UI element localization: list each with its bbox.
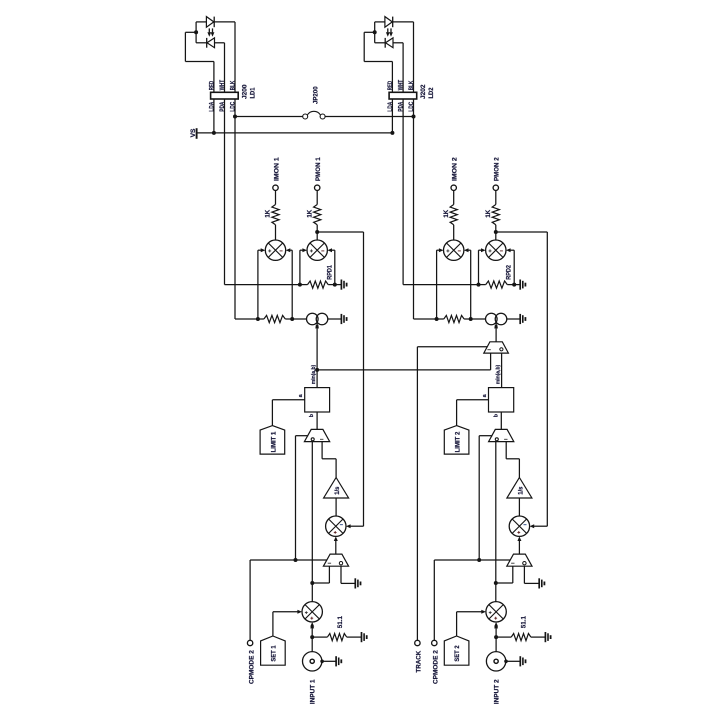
- ground rpd ch1: [340, 280, 342, 290]
- wire anode stub ch2: [364, 31, 375, 33]
- connector J200 LD1: [211, 92, 239, 99]
- wire b to limiter ch1: [316, 412, 318, 429]
- node sense left ch2: [435, 317, 439, 321]
- svg-text:BLK: BLK: [229, 80, 236, 90]
- wire laser anode top ch2: [375, 21, 385, 23]
- wire riser right: [513, 250, 515, 284]
- wire RED jog ch2: [363, 32, 365, 61]
- node LDA-VS ch1: [212, 131, 216, 135]
- node rpd left ch1: [298, 283, 302, 287]
- laser diode D2: [385, 17, 392, 28]
- wire rpd line ch2: [479, 284, 486, 286]
- integrator 1/s ch2: [507, 478, 532, 499]
- wire PDA vertical ch2: [402, 43, 404, 93]
- resistor 1K IMON 1: [272, 205, 279, 225]
- node sense right ch1: [290, 317, 294, 321]
- trapezoid feedback ch1: [323, 554, 348, 566]
- photodiode PD1: [207, 38, 215, 48]
- wire LDC vertical ch1: [234, 22, 236, 92]
- svg-text:RED: RED: [208, 81, 215, 91]
- wire photodiode line ch1: [196, 42, 207, 44]
- node rpd left ch2: [477, 283, 481, 287]
- node sense right ch2: [469, 317, 473, 321]
- svg-text:b: b: [309, 414, 315, 417]
- trapezoid track mux ch2: [484, 342, 509, 353]
- current mirror output arrow ch2: [495, 322, 497, 341]
- terminal VS: [196, 128, 198, 139]
- wire integrator to multiplier ch2: [518, 498, 520, 516]
- wire rpd line ch1: [300, 284, 308, 286]
- photodiode arrows ch2: [387, 28, 389, 32]
- svg-text:CPMODE 2: CPMODE 2: [433, 650, 440, 684]
- connector INPUT 1: [303, 652, 322, 671]
- monitor multiplier symbol: [486, 240, 506, 260]
- wire LDC vertical ch2: [413, 22, 415, 92]
- svg-text:RPD2: RPD2: [506, 265, 513, 280]
- svg-text:VS: VS: [190, 128, 197, 137]
- wire 1K down IMON 2: [453, 225, 455, 240]
- svg-text:1K: 1K: [485, 209, 492, 217]
- multiplier setpoint ch2: [486, 602, 506, 622]
- wire b to limiter ch2: [500, 412, 502, 429]
- wire LDA to VS ch1: [213, 99, 215, 133]
- node rpd right ch2: [512, 283, 516, 287]
- wire 51.1 ch1: [312, 636, 327, 638]
- svg-text:PMON 2: PMON 2: [494, 157, 501, 181]
- node setpoint ch1: [315, 368, 319, 372]
- wire PDA down ch1: [224, 99, 226, 285]
- terminal PMON 2: [493, 185, 498, 190]
- svg-text:IMON 2: IMON 2: [452, 157, 459, 181]
- wire integrator to multiplier ch1: [335, 498, 337, 516]
- node common anode ch1: [194, 30, 198, 34]
- svg-text:1K: 1K: [265, 209, 272, 217]
- resistor 51.1 ch1: [327, 634, 346, 641]
- integrator 1/s ch1: [324, 478, 349, 499]
- wire cpmode line ch1: [250, 559, 327, 561]
- resistor sense ch1: [264, 315, 285, 322]
- wire cpmode terminal ch1: [249, 560, 251, 640]
- svg-text:LD1: LD1: [249, 87, 256, 98]
- ground 51.1 ch1: [361, 632, 363, 642]
- wire limit to a ch1: [272, 399, 304, 401]
- svg-text:RPD1: RPD1: [326, 265, 333, 280]
- wire PDA down ch2: [402, 99, 404, 285]
- resistor 1K PMON 1: [314, 205, 321, 225]
- node common anode ch2: [373, 30, 377, 34]
- svg-text:TRACK: TRACK: [416, 650, 423, 672]
- wire LDC interconnect: [235, 116, 303, 118]
- wire LDA to VS ch2: [391, 99, 393, 133]
- svg-text:a: a: [298, 394, 304, 397]
- connector J202 LD2: [389, 92, 417, 99]
- resistor 51.1 ch2: [511, 634, 531, 641]
- wire TRACK vertical: [416, 347, 418, 641]
- terminal IMON 1: [273, 185, 278, 190]
- wire LDC down ch1: [234, 99, 236, 319]
- current mirror ch1: [307, 313, 319, 325]
- connector INPUT 2: [486, 652, 505, 671]
- resistor 1K PMON 2: [492, 205, 499, 225]
- wire riser right: [334, 250, 336, 284]
- svg-text:SET 2: SET 2: [454, 645, 461, 662]
- svg-text:WHT: WHT: [219, 80, 226, 90]
- node cpmode ch1: [294, 558, 298, 562]
- ground input ch1: [335, 656, 337, 666]
- terminal TRACK: [415, 640, 420, 645]
- wire laser anode top ch1: [196, 21, 206, 23]
- wire riser left: [436, 250, 438, 319]
- wire BLK pin ch1: [234, 92, 236, 99]
- node LDA-VS ch2: [390, 131, 394, 135]
- wire RED jog ch1: [184, 32, 186, 61]
- svg-text:LD2: LD2: [428, 87, 435, 98]
- svg-text:IMON 1: IMON 1: [273, 157, 280, 181]
- wire input junction ch2: [495, 627, 497, 638]
- wire terminal to 1K IMON 2: [453, 190, 455, 204]
- svg-text:1/s: 1/s: [334, 486, 341, 495]
- wire cpmode line ch2: [434, 559, 510, 561]
- trapezoid limiter ch2: [489, 429, 514, 441]
- node LDC-JP ch1: [233, 115, 237, 119]
- node LDC-JP ch2: [412, 115, 416, 119]
- svg-text:LIMIT 1: LIMIT 1: [270, 431, 277, 452]
- wire photodiode line ch2: [375, 42, 386, 44]
- wire sense line ch1: [258, 318, 264, 320]
- wire riser right: [470, 250, 472, 319]
- trapezoid feedback ch2: [507, 554, 532, 566]
- svg-text:JP200: JP200: [313, 86, 320, 104]
- wire VS rail: [197, 132, 393, 134]
- node sense left ch1: [256, 317, 260, 321]
- wire terminal to 1K PMON 1: [316, 190, 318, 204]
- svg-text:INPUT 1: INPUT 1: [310, 679, 317, 704]
- node limiter-out junction ch2: [494, 581, 498, 585]
- terminal CPMODE ch1: [247, 640, 252, 645]
- wire RED pin ch2: [391, 92, 393, 99]
- photodiode PD2: [386, 38, 394, 48]
- wire trap minus stub ch1: [328, 566, 330, 583]
- wire RED pin ch1: [213, 92, 215, 99]
- svg-text:1K: 1K: [306, 209, 313, 217]
- wire diode left vertical ch2: [374, 22, 376, 43]
- ground sense ch1: [340, 314, 342, 324]
- wire 1K down IMON 1: [275, 225, 277, 240]
- node cpmode ch2: [477, 558, 481, 562]
- svg-text:RED: RED: [387, 81, 394, 91]
- ground input ch2: [519, 656, 521, 666]
- ground trap ch2: [538, 578, 540, 588]
- trapezoid limiter ch1: [304, 429, 329, 441]
- wire riser left: [299, 250, 301, 284]
- wire input to junction ch2: [495, 637, 497, 652]
- wire PDA vertical ch1: [224, 43, 226, 93]
- svg-text:PMON 1: PMON 1: [315, 157, 322, 181]
- wire BLK pin ch2: [413, 92, 415, 99]
- resistor 1K IMON 2: [450, 205, 457, 225]
- monitor multiplier symbol: [444, 240, 464, 260]
- terminal CPMODE ch2: [432, 640, 437, 645]
- wire SET to mult ch1: [273, 611, 298, 613]
- wire 1K down PMON 2: [495, 225, 497, 240]
- wire terminal to 1K PMON 2: [495, 190, 497, 204]
- multiplier setpoint ch1: [302, 602, 322, 622]
- wire PMON feedback ch1: [317, 231, 363, 233]
- wire trap out stub ch1: [340, 566, 342, 583]
- svg-text:INPUT 2: INPUT 2: [494, 679, 501, 704]
- wire SET to mult ch2: [457, 611, 482, 613]
- wire trap out stub ch2: [523, 566, 525, 583]
- flag LIMIT 2: [444, 426, 469, 455]
- svg-text:a: a: [482, 394, 488, 397]
- wire track cross to ch2: [317, 369, 491, 371]
- wire limiter out ch2: [495, 442, 497, 602]
- wire input shield ch1: [322, 660, 336, 662]
- wire limit to a ch2: [457, 399, 489, 401]
- terminal IMON 2: [451, 185, 456, 190]
- wire input junction ch1: [311, 627, 313, 638]
- min box ch2: [489, 388, 514, 412]
- wire mult to trapezoid ch1: [335, 541, 337, 554]
- wire 1K down PMON 1: [316, 225, 318, 240]
- wire TRACK input ch2: [417, 346, 487, 348]
- svg-text:min(a,b): min(a,b): [495, 365, 501, 385]
- node PMON junction ch2: [494, 230, 498, 234]
- min box ch1: [305, 388, 330, 412]
- wire sense line ch2: [437, 318, 444, 320]
- wire terminal to 1K IMON 1: [275, 190, 277, 204]
- svg-text:51.1: 51.1: [337, 616, 344, 629]
- resistor RPD2: [486, 281, 508, 288]
- svg-text:min(a,b): min(a,b): [311, 365, 317, 385]
- wire trap minus stub ch2: [512, 566, 514, 583]
- svg-text:BLK: BLK: [408, 80, 415, 90]
- wire WHT pin ch1: [224, 92, 226, 99]
- wire riser left: [478, 250, 480, 284]
- photodiode arrows ch1: [208, 28, 210, 32]
- wire anode stub ch1: [185, 31, 196, 33]
- laser diode D1: [206, 17, 213, 28]
- ground 51.1 ch2: [544, 632, 546, 642]
- wire PMON feedback ch2: [496, 231, 548, 233]
- wire mux out to min box ch2: [501, 353, 503, 388]
- wire LDC down ch2: [413, 99, 415, 319]
- monitor multiplier symbol: [307, 240, 327, 260]
- svg-text:J202: J202: [420, 84, 427, 99]
- flag SET 2: [444, 636, 469, 665]
- resistor sense ch2: [444, 315, 464, 322]
- wire cpmode terminal ch2: [433, 560, 435, 640]
- wire cpmode vertical ch1: [295, 436, 297, 560]
- flag SET 1: [261, 636, 286, 665]
- wire limiter minus to integrator ch1: [321, 442, 323, 459]
- node limiter-out junction ch1: [310, 581, 314, 585]
- svg-text:WHT: WHT: [398, 80, 405, 90]
- multiplier error ch1: [326, 516, 346, 536]
- ground rpd ch2: [519, 280, 521, 290]
- wire 51.1 ch2: [496, 636, 511, 638]
- svg-text:b: b: [493, 414, 499, 417]
- wire input shield ch2: [506, 660, 521, 662]
- jumper JP200: [303, 114, 308, 119]
- resistor RPD1: [308, 281, 329, 288]
- svg-text:SET 1: SET 1: [270, 645, 277, 662]
- wire WHT pin ch2: [402, 92, 404, 99]
- svg-text:1/s: 1/s: [518, 486, 525, 495]
- flag LIMIT 1: [260, 426, 285, 455]
- svg-text:51.1: 51.1: [521, 616, 528, 629]
- wire riser left: [257, 250, 259, 319]
- wire limiter minus to integrator ch2: [505, 442, 507, 459]
- wire diode left vertical ch1: [195, 22, 197, 43]
- node rpd right ch1: [333, 283, 337, 287]
- current mirror output arrow ch1: [316, 322, 318, 387]
- wire cpmode vertical ch2: [478, 436, 480, 560]
- ground sense ch2: [519, 314, 521, 324]
- current mirror ch2: [486, 313, 498, 325]
- monitor multiplier symbol: [265, 240, 285, 260]
- svg-text:1K: 1K: [443, 209, 450, 217]
- terminal PMON 1: [315, 185, 320, 190]
- wire limiter out ch1: [311, 442, 313, 602]
- multiplier error ch2: [509, 516, 529, 536]
- node PMON junction ch1: [315, 230, 319, 234]
- svg-text:CPMODE 2: CPMODE 2: [248, 650, 255, 684]
- wire riser right: [291, 250, 293, 319]
- wire mult to trapezoid ch2: [518, 541, 520, 554]
- svg-text:J200: J200: [242, 84, 249, 99]
- wire input to junction ch1: [311, 637, 313, 652]
- svg-text:LIMIT 2: LIMIT 2: [455, 431, 462, 452]
- ground trap ch1: [354, 578, 356, 588]
